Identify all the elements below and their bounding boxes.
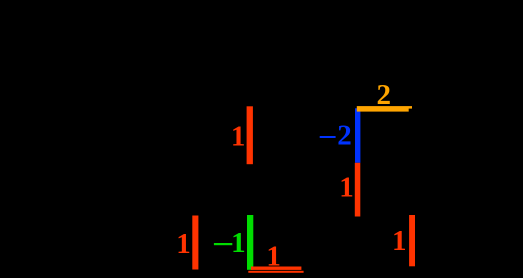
wire red double horizontal segment bottom-middle: [251, 267, 301, 270]
wire orange horizontal segment: [357, 106, 412, 109]
wire red vertical segment bottom-right: [409, 215, 415, 266]
node label -2 (blue): minus stroke: [320, 136, 336, 138]
svg-text:1: 1: [231, 121, 246, 153]
wire red vertical segment bottom-left: [192, 216, 198, 270]
svg-text:1: 1: [176, 228, 191, 260]
wire green vertical segment: [247, 215, 253, 270]
svg-text:1: 1: [339, 171, 354, 203]
wire red vertical segment top-middle: [247, 106, 253, 164]
wire blue vertical segment: [355, 108, 360, 163]
node label -1 (green): minus stroke: [214, 243, 232, 245]
wire red vertical segment middle (below blue): [355, 163, 361, 217]
svg-text:1: 1: [266, 240, 281, 272]
svg-text:1: 1: [392, 225, 407, 257]
svg-text:2: 2: [337, 120, 352, 152]
svg-text:2: 2: [376, 79, 391, 111]
svg-text:1: 1: [231, 227, 246, 259]
